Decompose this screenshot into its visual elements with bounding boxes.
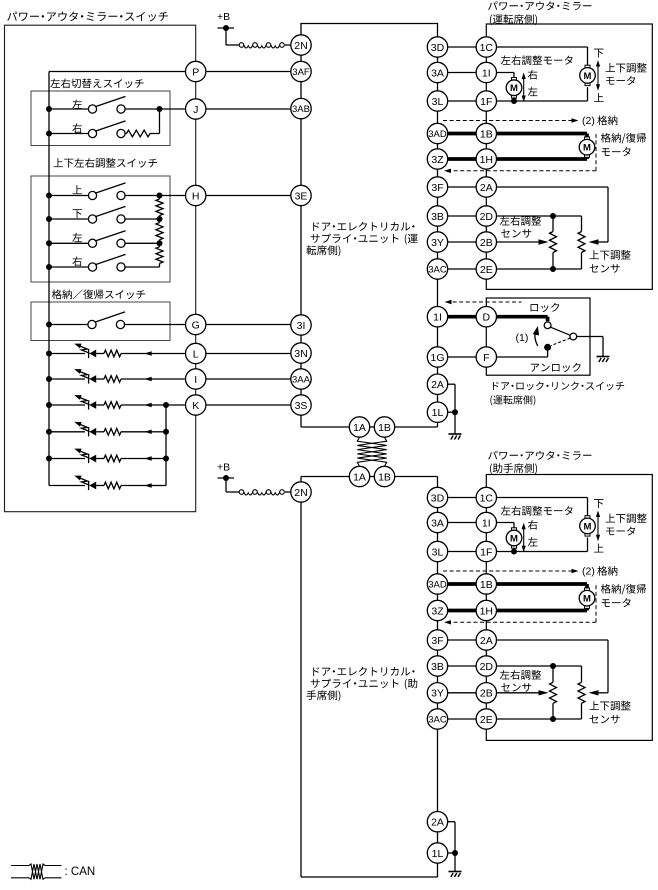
terminal 1C (mirror driver) [476, 37, 496, 57]
terminal 3AC (ECU right lower) [427, 709, 447, 729]
dashed arrow return [447, 170, 596, 172]
terminal 2E (mirror driver) [476, 259, 496, 279]
label: up-down adjust motor [606, 514, 615, 523]
terminal 1B (mirror passenger) [476, 574, 496, 594]
up-down adjust motor M [580, 65, 596, 85]
indicator LED + resistor row y=405 [49, 404, 85, 406]
terminal K [186, 395, 206, 415]
wires ECU to mirror connector rows [448, 46, 476, 48]
terminal 1C (mirror passenger) [476, 487, 496, 507]
label: left-right adjust sensor [500, 670, 510, 679]
terminal 1A upper [349, 417, 369, 437]
wire: common bus from P [49, 71, 186, 73]
door electrical supply unit (driver) box [301, 24, 438, 37]
svg-text:3I: 3I [297, 320, 306, 332]
label: retract/return motor [601, 584, 611, 594]
dashed arrow (2) retract [443, 120, 573, 122]
left-right adjust motor M [506, 78, 522, 98]
fuse coil lower [239, 490, 284, 495]
label: door electrical supply unit (passenger side) [313, 667, 319, 676]
svg-text:3Z: 3Z [431, 154, 444, 166]
terminal 3L (ECU right lower) [427, 541, 447, 561]
svg-text:M: M [584, 71, 592, 82]
terminal 3AD (ECU right) [427, 123, 447, 143]
wire 1F common [497, 100, 588, 102]
label: up-down-left-right adjust switch [54, 158, 63, 167]
terminal 2B (mirror passenger) [476, 683, 496, 703]
svg-text:2A: 2A [480, 182, 493, 194]
svg-text:1H: 1H [480, 605, 493, 617]
svg-text:K: K [192, 400, 199, 412]
svg-text:3AD: 3AD [428, 129, 447, 140]
power outer mirror box (passenger) [486, 475, 652, 741]
wires ECU to mirror connector rows [448, 497, 476, 499]
switch: adjust-右 contacts [49, 266, 89, 268]
terminal 1H (mirror driver) [476, 149, 496, 169]
wire P-3AF [206, 71, 291, 73]
svg-text:+B: +B [217, 11, 230, 23]
svg-text:1B: 1B [378, 471, 391, 483]
svg-text:2B: 2B [480, 237, 493, 249]
terminal 2A (ECU right) [427, 374, 447, 394]
switch lever [550, 327, 570, 335]
terminal 1L (ECU right) [427, 402, 447, 422]
label: left-right adjust motor [501, 55, 511, 64]
power outer mirror box (driver) [486, 24, 652, 289]
svg-text:3Z: 3Z [431, 605, 444, 617]
svg-text:1G: 1G [430, 352, 444, 364]
label: up-down adjust motor [606, 63, 615, 72]
thick wire 1B to retract motor [497, 132, 588, 136]
left-right adjust sensor (potentiometer) [552, 216, 554, 232]
lock contact [544, 322, 551, 329]
wire 1C to up-down motor [497, 46, 588, 48]
retract/return motor M [579, 137, 595, 157]
wire 1F common [497, 551, 588, 553]
svg-text:M: M [583, 143, 591, 154]
svg-text:J: J [193, 104, 198, 116]
svg-text:L: L [193, 348, 199, 360]
left-right adjust sensor (potentiometer) [552, 666, 554, 682]
terminal 1B (mirror driver) [476, 123, 496, 143]
junction dots selector switch [46, 106, 52, 112]
wire 1I to left-right motor [497, 72, 515, 74]
terminal H [186, 185, 206, 205]
svg-text:2D: 2D [480, 661, 494, 673]
terminal 1I (mirror passenger) [476, 512, 496, 532]
terminal G [186, 314, 206, 334]
label: door electrical supply unit (driver side) [313, 222, 319, 231]
thick wire 1H to retract motor [497, 609, 588, 613]
indicator LED + resistor row y=485.5 [49, 485, 85, 487]
label lock [531, 304, 539, 311]
right return bus of LED rows [152, 431, 167, 433]
terminal 3N (ECU left) [291, 343, 311, 363]
terminal 1I (mirror driver) [476, 62, 496, 82]
terminal I [186, 369, 206, 389]
terminal J [186, 99, 206, 119]
up-down adjust motor M [580, 516, 596, 536]
svg-text:3S: 3S [295, 400, 308, 412]
wire K-3S [206, 404, 291, 406]
terminal 3B (ECU right) [427, 206, 447, 226]
terminal 3D (ECU right lower) [427, 487, 447, 507]
thick wire 1H to retract motor [497, 157, 588, 161]
terminal 3A (ECU right lower) [427, 512, 447, 532]
wire row to L [152, 353, 186, 355]
wire L-3N [206, 353, 291, 355]
unlock contact dot [544, 344, 551, 351]
terminal 2D (mirror driver) [476, 206, 496, 226]
switch: adjust-左 contacts [49, 242, 89, 244]
retract/return switch box [31, 302, 170, 341]
door lock link switch box [486, 298, 590, 375]
motion arrow up-down motor [597, 512, 599, 539]
svg-text:M: M [510, 83, 518, 94]
dashed arrow lock indication [446, 301, 522, 303]
wire row to K [152, 404, 186, 406]
left bus junction dots [46, 351, 52, 357]
wire 1C to up-down motor [497, 497, 588, 499]
up-down-left-right adjust switch box [31, 176, 170, 282]
door electrical supply unit (passenger) box [301, 476, 349, 478]
terminal 2B (mirror driver) [476, 232, 496, 252]
dashed arrow return [447, 621, 596, 623]
svg-text:I: I [194, 374, 197, 386]
terminal 3E (ECU left) [291, 185, 311, 205]
svg-text:3Y: 3Y [431, 688, 444, 700]
svg-text:1L: 1L [432, 407, 444, 419]
ECU right edge segments [437, 57, 439, 62]
svg-text:1B: 1B [378, 422, 391, 434]
terminal 3AF (ECU left) [291, 61, 311, 81]
svg-text:3E: 3E [295, 190, 308, 202]
svg-text:3B: 3B [431, 211, 444, 223]
svg-text:1B: 1B [480, 579, 493, 591]
wire 2B to left-right sensor wiper [497, 692, 539, 694]
svg-text:3Y: 3Y [431, 237, 444, 249]
up-down adjust sensor (potentiometer) [581, 216, 583, 232]
terminal 1F (mirror driver) [476, 91, 496, 111]
svg-text:2E: 2E [480, 264, 493, 276]
wire 1I-D thick [448, 315, 476, 319]
svg-text:1B: 1B [480, 128, 493, 140]
label: power outer mirror (passenger) [488, 451, 497, 460]
wire 2E to sensors bottom [497, 718, 582, 720]
svg-text:1A: 1A [353, 422, 366, 434]
terminal 2E (mirror passenger) [476, 709, 496, 729]
wire 2B to left-right sensor wiper [497, 241, 539, 243]
thick wire 1B to retract motor [497, 582, 588, 586]
terminal 1B lower [374, 466, 394, 486]
ECU lower right edge segments [437, 477, 439, 488]
svg-text:3B: 3B [431, 661, 444, 673]
svg-text:+B: +B [217, 462, 230, 474]
terminal P [186, 61, 206, 81]
wire 1G-F [448, 356, 476, 358]
label: power outer mirror switch [7, 12, 17, 21]
fuse coil upper [239, 43, 284, 48]
wire 2E to sensors bottom [497, 268, 582, 270]
wire J-3AB [206, 108, 291, 110]
svg-text:1C: 1C [480, 492, 494, 504]
ground (lock switch) [597, 357, 610, 363]
label: door lock link switch [493, 382, 499, 390]
svg-text:: CAN: : CAN [65, 866, 96, 878]
svg-text:(1): (1) [516, 332, 529, 344]
terminal 3AC (ECU right) [427, 259, 447, 279]
terminal 1H (mirror passenger) [476, 600, 496, 620]
label: retract/return switch [52, 289, 62, 299]
terminal 3A (ECU right) [427, 62, 447, 82]
switch: retract/return contacts [49, 324, 89, 326]
dashed arrow (2) retract [443, 570, 573, 572]
wire F to unlock contact [497, 356, 548, 358]
svg-text:1H: 1H [480, 154, 493, 166]
resistor ladder in adjust switch [156, 199, 163, 216]
common contact [570, 333, 577, 340]
svg-text:3A: 3A [431, 67, 444, 79]
terminal F [476, 347, 496, 367]
thick wire D to lock contact [497, 315, 548, 319]
svg-text:3L: 3L [432, 96, 444, 108]
terminal 1A lower [349, 466, 369, 486]
svg-text:(2): (2) [582, 566, 595, 578]
label: up-down adjust sensor [590, 701, 599, 710]
terminal 3F (ECU right) [427, 177, 447, 197]
terminal 1G (ECU right) [427, 347, 447, 367]
power outer mirror switch box [5, 25, 196, 512]
wire 2A/1L to ground (lower) [448, 821, 455, 823]
label: up-down adjust sensor [590, 250, 599, 259]
ground (lower unit) [449, 872, 462, 878]
svg-text:1I: 1I [482, 517, 491, 529]
terminal 3AB (ECU left) [291, 98, 311, 118]
terminal L [186, 343, 206, 363]
svg-text:2A: 2A [431, 379, 444, 391]
svg-text:H: H [192, 190, 200, 202]
terminal D [476, 307, 496, 327]
wire 2A to up-down sensor [497, 186, 609, 188]
terminal 3AA (ECU left) [291, 369, 311, 389]
CAN twisted pair interconnect [357, 437, 386, 466]
svg-text:1I: 1I [433, 311, 442, 323]
terminal 3AD (ECU right lower) [427, 574, 447, 594]
svg-text:2A: 2A [431, 816, 444, 828]
svg-text:1A: 1A [353, 471, 366, 483]
switch: adjust-上 contacts [49, 195, 89, 197]
svg-text:3AF: 3AF [292, 67, 310, 78]
wire I-3AA [206, 378, 291, 380]
terminal 1B upper [374, 417, 394, 437]
svg-text:2N: 2N [294, 40, 307, 52]
svg-text:3AC: 3AC [428, 264, 447, 275]
svg-text:2D: 2D [480, 211, 494, 223]
ground (upper unit) [449, 434, 462, 440]
up-down adjust sensor (potentiometer) [581, 666, 583, 682]
svg-text:F: F [483, 352, 489, 364]
terminal 1L lower [427, 843, 447, 863]
svg-text:3D: 3D [431, 492, 445, 504]
label: left-right adjust motor [501, 506, 511, 515]
terminal 3Y (ECU right) [427, 232, 447, 252]
wire 2A/1L to ground (upper) [448, 383, 455, 385]
retract/return motor M [579, 588, 595, 608]
svg-text:1F: 1F [480, 96, 492, 108]
svg-text:2N: 2N [294, 487, 307, 499]
svg-text:1C: 1C [480, 42, 494, 54]
svg-text:1L: 1L [432, 848, 444, 860]
indicator LED + resistor row y=431.8 [49, 431, 85, 433]
indicator LED + resistor row y=379 [49, 378, 85, 380]
indicator LED + resistor row y=353.5 [49, 353, 85, 355]
svg-text:2B: 2B [480, 688, 493, 700]
wire 2A to up-down sensor [497, 639, 609, 641]
svg-text:M: M [510, 533, 518, 544]
terminal 3B (ECU right lower) [427, 656, 447, 676]
wire H-3E [206, 195, 291, 197]
terminal 3S (ECU left) [291, 395, 311, 415]
svg-text:D: D [483, 311, 491, 323]
terminal 2N lower [291, 482, 311, 502]
wire row to I [152, 378, 186, 380]
ECU left edge segments [300, 55, 302, 61]
svg-text:3AC: 3AC [428, 714, 447, 725]
wire: adjust top row to H [160, 195, 186, 197]
svg-text:2A: 2A [480, 635, 493, 647]
label: left-right adjust sensor [500, 216, 510, 225]
svg-text:3N: 3N [294, 348, 307, 360]
terminal 3L (ECU right) [427, 91, 447, 111]
switch: selector-left contacts [49, 108, 89, 110]
terminal 3F (ECU right lower) [427, 630, 447, 650]
switch: adjust-下 contacts [49, 218, 89, 220]
svg-text:3F: 3F [431, 182, 443, 194]
left-right selector switch box [31, 91, 170, 146]
terminal 2N (ECU left) [291, 35, 311, 55]
svg-text:P: P [192, 66, 199, 78]
svg-text:3F: 3F [431, 635, 443, 647]
wire G-3I [206, 324, 291, 326]
wire 2D to sensors top [497, 215, 582, 217]
terminal 3Y (ECU right lower) [427, 683, 447, 703]
svg-text:G: G [192, 319, 200, 331]
svg-text:3L: 3L [432, 546, 444, 558]
label: power outer mirror (driver) [488, 1, 497, 10]
svg-text:3D: 3D [431, 42, 445, 54]
terminal 2A (mirror driver) [476, 177, 496, 197]
svg-text:3A: 3A [431, 517, 444, 529]
motion arrow up-down motor [597, 62, 599, 89]
svg-text:1I: 1I [482, 67, 491, 79]
terminal 3I (ECU left) [291, 315, 311, 335]
svg-text:2E: 2E [480, 714, 493, 726]
terminal 3Z (ECU right) [427, 149, 447, 169]
svg-text:3AB: 3AB [292, 104, 310, 115]
motion arrow left-right motor [523, 525, 525, 550]
indicator LED + resistor row y=458.5 [49, 458, 85, 460]
terminal 2A lower [427, 812, 447, 832]
CAN legend twisted pair symbol [11, 865, 29, 867]
svg-text:M: M [584, 521, 592, 532]
svg-text:3AA: 3AA [292, 374, 311, 385]
switch: selector-right contacts with resistor [49, 133, 89, 135]
svg-text:(2): (2) [582, 115, 595, 127]
svg-text:1F: 1F [480, 546, 492, 558]
wire common contact to ground [577, 336, 603, 338]
terminal 3D (ECU right) [427, 37, 447, 57]
terminal 1F (mirror passenger) [476, 541, 496, 561]
terminal 3Z (ECU right lower) [427, 600, 447, 620]
actuation arrow (1) [535, 330, 538, 346]
motion arrow left-right motor [523, 75, 525, 100]
dashed lever to unlock [551, 338, 570, 346]
terminal 1I (ECU right) [427, 307, 447, 327]
label unlock [531, 364, 539, 372]
svg-text:3AD: 3AD [428, 579, 447, 590]
label: left-right selector switch [50, 78, 60, 87]
wire 2D to sensors top [497, 665, 582, 667]
terminal 2A (mirror passenger) [476, 630, 496, 650]
terminal 2D (mirror passenger) [476, 656, 496, 676]
wire 1I to left-right motor [497, 522, 515, 524]
svg-text:M: M [583, 594, 591, 605]
left-right adjust motor M [506, 528, 522, 548]
label: retract/return motor [601, 133, 611, 143]
